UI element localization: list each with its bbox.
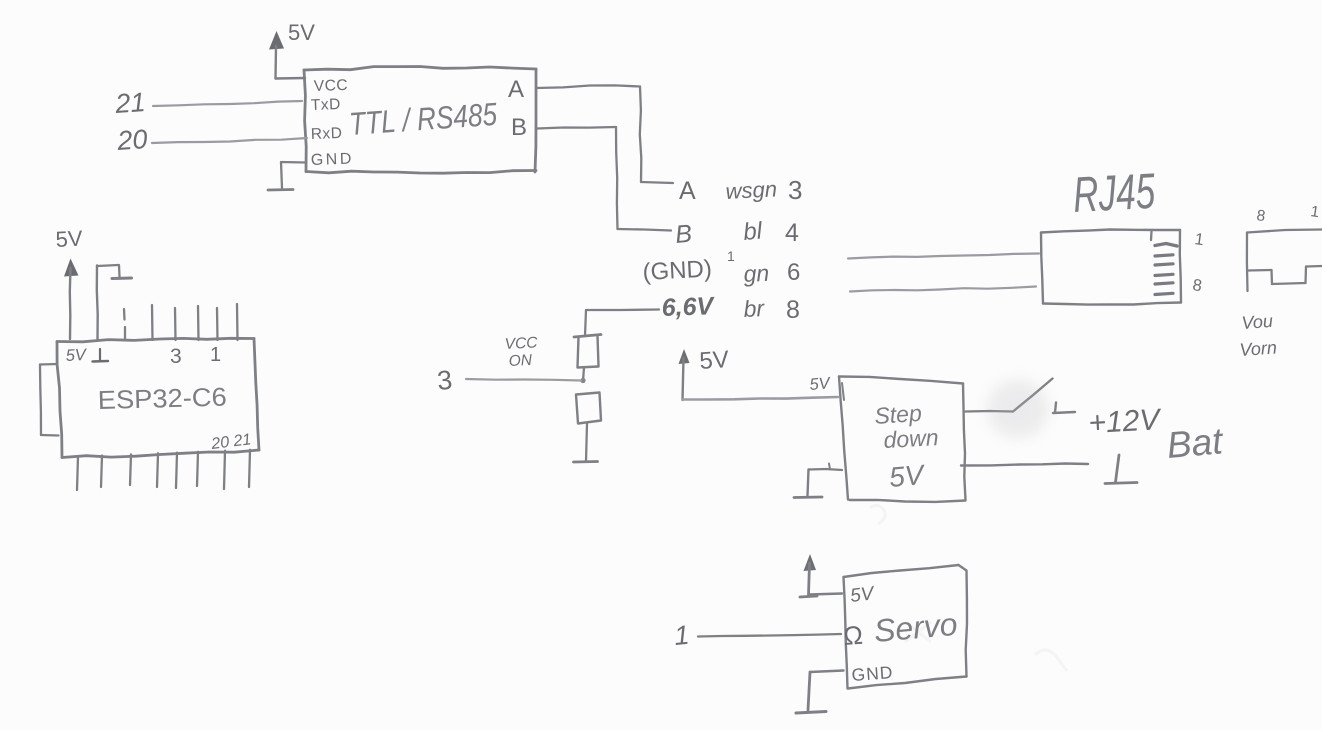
svg-text:VCC: VCC [314,77,349,95]
svg-text:8: 8 [786,296,800,324]
svg-text:Vorn: Vorn [1239,337,1278,360]
svg-text:+12V: +12V [1088,403,1164,440]
svg-text:21: 21 [113,87,146,119]
svg-text:5V: 5V [888,459,927,493]
svg-text:B: B [511,114,527,141]
svg-text:Servo: Servo [872,606,958,649]
svg-text:GND: GND [311,151,355,169]
svg-text:3: 3 [436,365,454,396]
svg-text:6,6V: 6,6V [661,292,716,322]
svg-text:20: 20 [115,124,148,156]
svg-text:(GND): (GND) [642,255,713,286]
svg-text:6: 6 [787,259,800,286]
svg-text:gn: gn [743,260,770,287]
svg-text:down: down [883,424,939,453]
svg-text:bl: bl [742,217,764,246]
svg-text:1: 1 [727,248,735,264]
svg-text:ESP32-C6: ESP32-C6 [97,382,227,415]
svg-text:Bat: Bat [1165,420,1226,466]
svg-text:ON: ON [508,352,533,370]
svg-text:VCC: VCC [504,334,538,353]
svg-text:wsgn: wsgn [725,176,778,204]
svg-text:br: br [743,295,766,322]
svg-text:RJ45: RJ45 [1072,163,1157,223]
svg-text:1: 1 [673,620,691,651]
svg-text:3: 3 [170,345,182,368]
svg-text:Vou: Vou [1241,311,1274,333]
svg-text:RxD: RxD [311,125,343,143]
svg-text:5V: 5V [699,346,730,375]
svg-text:5V: 5V [809,374,833,394]
svg-text:3: 3 [788,175,802,205]
svg-text:A: A [679,177,696,205]
svg-text:B: B [674,220,693,249]
svg-text:A: A [508,76,524,103]
svg-text:5V: 5V [288,20,315,45]
svg-text:GND: GND [851,662,894,685]
svg-text:5V: 5V [65,346,88,365]
svg-text:4: 4 [785,219,799,247]
svg-text:Ω: Ω [842,620,863,651]
svg-text:1: 1 [210,344,221,366]
svg-text:5V: 5V [55,226,84,252]
svg-text:TxD: TxD [311,96,341,114]
